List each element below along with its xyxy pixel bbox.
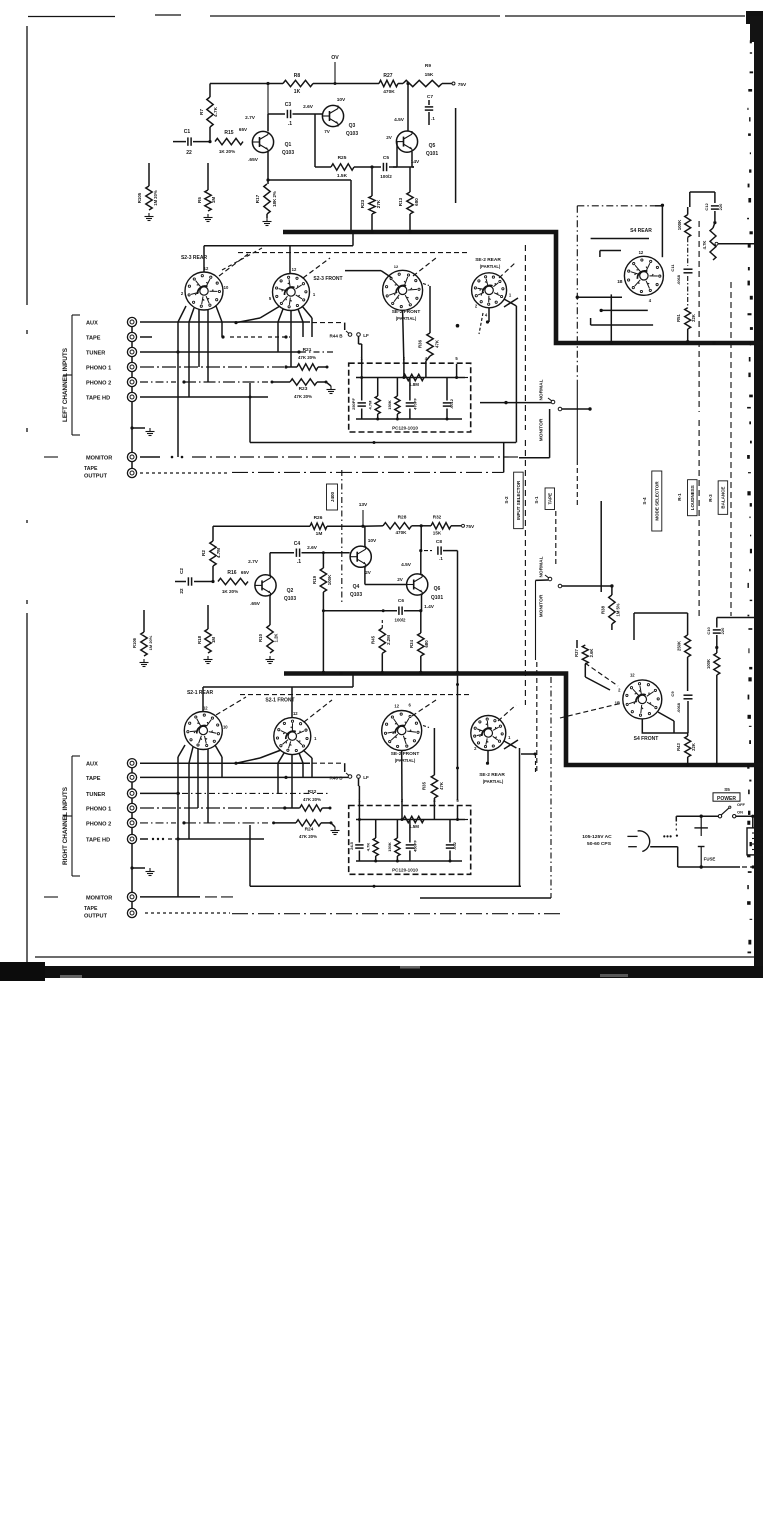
svg-text:R17: R17 <box>255 194 260 203</box>
resistor R36 47K <box>418 284 440 365</box>
svg-text:12: 12 <box>292 267 297 272</box>
wire monitor segment right <box>420 897 551 899</box>
resistor 1.5M pc right <box>403 816 424 829</box>
svg-text:Q6: Q6 <box>434 586 441 592</box>
transformer primary <box>747 828 763 855</box>
input row TAPE HD right <box>140 837 264 840</box>
svg-text:2.6K: 2.6K <box>589 649 594 658</box>
wire mid horizontal right ch <box>250 885 521 888</box>
linkage balance dashed <box>730 282 732 616</box>
wire S4R lower left <box>576 296 622 299</box>
svg-text:.1: .1 <box>439 556 443 561</box>
svg-text:SE-2 FRONT: SE-2 FRONT <box>392 309 421 315</box>
svg-text:TAPE HD: TAPE HD <box>86 838 110 844</box>
svg-text:22K: 22K <box>691 743 696 751</box>
input row MONITOR left <box>140 456 519 459</box>
svg-text:MONITOR: MONITOR <box>86 895 112 901</box>
linkage diag S2-1 FRONT <box>304 700 332 722</box>
wire Q4 emitter down <box>365 567 407 585</box>
svg-text:R51: R51 <box>676 313 681 321</box>
svg-text:R45: R45 <box>371 635 376 644</box>
wire tapehd vertical right <box>249 825 251 886</box>
capacitor 250PF pc right <box>349 820 364 862</box>
svg-text:1M: 1M <box>211 637 216 643</box>
rotary switch SE-2 REAR <box>472 257 512 317</box>
svg-text:2.7V: 2.7V <box>248 559 259 565</box>
input row TUNER right <box>140 792 330 794</box>
wire vertical 535 right ch <box>536 580 537 772</box>
wire jacks monitor link <box>131 462 133 469</box>
resistor R5 1M <box>197 163 216 211</box>
svg-text:LF: LF <box>363 333 369 338</box>
svg-text:4.7K: 4.7K <box>702 241 707 250</box>
wire tapehd vertical <box>249 383 251 443</box>
svg-text:R-1: R-1 <box>677 493 682 501</box>
capacitor C10 220 <box>706 618 754 650</box>
wire Q4 collector up <box>364 526 366 547</box>
resistor R25 <box>331 155 354 179</box>
svg-text:47K 20%: 47K 20% <box>299 834 317 839</box>
wire supply rail right ch <box>213 525 310 527</box>
jack PHONO 2 <box>86 377 137 386</box>
resistor R26 1M <box>310 515 363 537</box>
input row MONITOR right <box>140 896 236 898</box>
svg-text:C11: C11 <box>670 264 675 272</box>
svg-text:10: 10 <box>223 725 228 730</box>
svg-text:R38: R38 <box>601 605 606 614</box>
svg-text:47K: 47K <box>435 339 440 348</box>
svg-text:R26: R26 <box>314 515 323 521</box>
label box BALANCE <box>708 481 728 514</box>
wire to 75V <box>442 82 467 88</box>
resistor 1.8M pc left <box>403 374 424 387</box>
resistor R22 47K <box>300 789 332 811</box>
svg-text:R24: R24 <box>305 827 314 833</box>
svg-text:1K 20%: 1K 20% <box>222 589 238 594</box>
wire S4F bottom loop <box>642 719 688 733</box>
capacitor C2 <box>175 568 213 594</box>
svg-text:65V: 65V <box>239 127 248 132</box>
svg-text:1B: 1B <box>617 279 622 284</box>
svg-text:100K: 100K <box>327 574 332 585</box>
svg-text:680: 680 <box>424 640 429 648</box>
svg-text:TAPE HD: TAPE HD <box>86 396 110 402</box>
node 13V supply <box>359 502 368 528</box>
jack MONITOR right <box>86 892 137 901</box>
svg-text:1.5K: 1.5K <box>337 173 348 179</box>
svg-text:AUX: AUX <box>86 762 98 768</box>
wire power bottom <box>678 865 755 868</box>
svg-text:12: 12 <box>394 704 399 709</box>
svg-text:PC120-1010: PC120-1010 <box>392 426 418 431</box>
svg-text:Q101: Q101 <box>426 151 438 157</box>
ac plug <box>627 831 678 852</box>
wire spoke tuner long <box>176 350 179 457</box>
jack MONITOR <box>86 452 137 461</box>
capacitor C11 .0068 <box>670 264 693 285</box>
wire plug riser <box>675 816 677 833</box>
svg-text:R44 B: R44 B <box>329 334 343 339</box>
pc board PC120-1010 right <box>349 798 471 874</box>
switch NORMAL-MONITOR right <box>539 556 562 617</box>
wire monitor switch right <box>562 407 592 410</box>
linkage vertical S1 dash <box>551 511 556 898</box>
resistor R106 <box>132 610 153 656</box>
svg-text:2.2M: 2.2M <box>386 635 391 645</box>
svg-text:2V: 2V <box>397 577 404 582</box>
wire 100K top link <box>690 192 715 203</box>
wire S4F pin right <box>658 712 674 733</box>
capacitor C5 <box>380 155 414 179</box>
resistor R19 100K <box>312 551 332 674</box>
bus dots S4R <box>610 341 716 345</box>
resistor 4.7M pc left <box>368 378 381 420</box>
wire SE-2 REAR to right <box>456 298 518 443</box>
jack TAPE HD right <box>86 834 137 843</box>
svg-text:22: 22 <box>186 150 192 156</box>
svg-text:TUNER: TUNER <box>86 351 105 357</box>
svg-text:POWER: POWER <box>717 796 736 802</box>
wire 250K top link <box>634 613 688 640</box>
svg-text:10V: 10V <box>368 538 377 544</box>
wire Q6 emitter node <box>419 595 422 612</box>
pc board bottom wire left <box>356 418 462 421</box>
label box MODE SELECTOR <box>642 471 662 531</box>
svg-text:Q5: Q5 <box>429 143 436 149</box>
svg-text:Q103: Q103 <box>282 150 294 156</box>
svg-text:C1: C1 <box>184 129 191 135</box>
input row PHONO 2 right <box>140 821 296 824</box>
wire SE-2 REAR right link <box>504 740 537 822</box>
svg-text:65V: 65V <box>241 570 250 575</box>
svg-text:R25: R25 <box>338 155 347 161</box>
svg-text:R21: R21 <box>303 347 312 353</box>
svg-text:470PF: 470PF <box>413 398 418 410</box>
linkage J400 dashed <box>341 470 343 602</box>
switch S5 power <box>718 802 745 818</box>
svg-text:4.5V: 4.5V <box>401 562 412 568</box>
svg-text:MONITOR: MONITOR <box>539 594 545 617</box>
svg-text:12: 12 <box>203 706 208 711</box>
svg-text:10V: 10V <box>337 97 346 103</box>
wire R8 to OV <box>313 83 335 85</box>
pc board top wire right <box>356 806 470 821</box>
svg-text:R46 B: R46 B <box>329 776 343 781</box>
linkage diag SE-2 REAR <box>499 262 516 278</box>
wire Q1 emitter to bus <box>268 180 351 232</box>
wire Q1 emitter down <box>266 152 269 182</box>
jack TAPE HD <box>86 392 137 401</box>
rotary switch S2-1 FRONT <box>265 698 317 755</box>
svg-text:OUTPUT: OUTPUT <box>84 914 108 920</box>
capacitor C9 .0068 <box>670 675 693 733</box>
border frame top-right corner blob <box>746 11 763 24</box>
svg-text:R37: R37 <box>574 648 579 656</box>
svg-text:4.7M: 4.7M <box>368 400 373 410</box>
svg-text:C3: C3 <box>285 102 292 108</box>
jack AUX right <box>86 759 137 768</box>
svg-text:(PARTIAL): (PARTIAL) <box>483 779 504 784</box>
svg-text:R22: R22 <box>308 789 317 795</box>
svg-text:.65V: .65V <box>248 157 259 163</box>
svg-text:MONITOR: MONITOR <box>86 456 112 462</box>
jack TAPE OUTPUT <box>84 466 137 480</box>
svg-text:C5: C5 <box>383 155 389 161</box>
svg-text:NORMAL: NORMAL <box>539 556 545 577</box>
svg-text:S-4: S-4 <box>642 497 647 505</box>
svg-text:150K: 150K <box>387 400 392 410</box>
svg-text:R18: R18 <box>197 635 202 644</box>
wire rail to Q1 collector <box>266 82 269 131</box>
svg-text:S2-1 FRONT: S2-1 FRONT <box>265 698 294 704</box>
wire plug lower conductor <box>650 847 678 867</box>
wire spoke SE-2 REAR right down <box>486 751 489 765</box>
rotary switch SE-2 FRONT <box>383 270 423 321</box>
svg-text:Q103: Q103 <box>350 592 362 598</box>
svg-text:22: 22 <box>179 588 184 594</box>
svg-text:S2-1 REAR: S2-1 REAR <box>187 690 214 696</box>
resistor R35 47K <box>422 726 445 807</box>
ground below R105 <box>145 213 154 221</box>
svg-text:47K 20%: 47K 20% <box>298 355 316 360</box>
svg-text:2.6V: 2.6V <box>307 545 318 551</box>
bracket RIGHT CHANNEL INPUTS <box>44 756 80 897</box>
transistor Q3 <box>322 97 358 137</box>
wire vertical 601 <box>600 501 602 592</box>
capacitor C1 <box>173 129 210 156</box>
svg-text:R43: R43 <box>676 742 681 750</box>
bus shielded line right channel <box>284 674 763 766</box>
svg-text:C2: C2 <box>179 568 184 574</box>
svg-text:2V: 2V <box>386 135 393 140</box>
resistor 250K s4f <box>677 613 691 675</box>
svg-text:4.7M: 4.7M <box>216 548 221 558</box>
svg-text:.0012: .0012 <box>449 398 454 409</box>
rotary switch S4 FRONT <box>615 672 662 742</box>
svg-text:TAPE: TAPE <box>548 493 553 505</box>
ground below R5 <box>204 214 213 222</box>
resistor R9 15K <box>403 63 442 87</box>
input row TAPE OUTPUT left <box>140 471 504 474</box>
capacitor C6 <box>323 598 420 623</box>
wire S4R to bus <box>610 294 612 341</box>
capacitor C12 220 <box>704 203 723 225</box>
rotary switch S2-3 FRONT <box>269 267 343 311</box>
svg-text:Q4: Q4 <box>353 584 360 590</box>
svg-text:R10: R10 <box>258 633 263 642</box>
svg-text:PC120-1010: PC120-1010 <box>392 868 418 873</box>
pc board top wire left <box>356 364 470 379</box>
linkage chain 100K C11 R51 <box>687 237 689 266</box>
svg-text:OFF: OFF <box>737 802 746 807</box>
transistor Q1 <box>239 115 294 163</box>
svg-text:R28: R28 <box>398 515 407 521</box>
svg-text:PHONO 2: PHONO 2 <box>86 821 111 827</box>
svg-text:150K: 150K <box>387 842 392 852</box>
jack TUNER right <box>86 789 137 798</box>
svg-text:LF: LF <box>363 775 369 780</box>
resistor 100K s4f <box>706 648 720 767</box>
svg-text:R23: R23 <box>299 386 308 392</box>
svg-text:C12: C12 <box>704 203 709 211</box>
wire R27 junction to Q5 <box>407 84 409 132</box>
input row TAPE HD <box>140 396 268 399</box>
resistor R2 4.7M <box>201 526 221 581</box>
resistor R10 <box>258 596 279 653</box>
wire monitor switch right ch <box>536 580 614 588</box>
svg-text:MODE SELECTOR: MODE SELECTOR <box>655 481 660 521</box>
wire S4R left pins <box>591 239 649 258</box>
svg-text:R19: R19 <box>312 575 317 584</box>
node OV top supply <box>331 55 339 85</box>
rotary switch S4 REAR <box>617 228 663 303</box>
ground jack chain left <box>146 428 155 436</box>
svg-text:INPUT SELECTOR: INPUT SELECTOR <box>516 480 521 520</box>
wire R44 to PC board pin1 <box>359 336 362 364</box>
svg-text:1M 5%: 1M 5% <box>616 603 621 616</box>
svg-text:Q1: Q1 <box>285 142 292 148</box>
wire S4R pin12 drop <box>661 205 663 257</box>
svg-text:OUTPUT: OUTPUT <box>84 474 108 480</box>
border frame bottom line <box>35 956 755 958</box>
linkage loudness dashed <box>698 221 700 616</box>
wire spokes S2-1 REAR down <box>178 745 222 839</box>
resistor R45 2.2M <box>371 620 392 674</box>
svg-text:.1: .1 <box>431 116 435 121</box>
svg-text:.1: .1 <box>288 121 292 127</box>
linkage diag SE-2 FRONT <box>413 258 436 276</box>
svg-text:C8: C8 <box>436 539 442 545</box>
resistor R51 22K <box>676 308 696 344</box>
svg-text:R5: R5 <box>197 197 202 203</box>
input row TUNER <box>140 350 336 353</box>
wire collector Q6 up <box>419 526 422 574</box>
svg-text:680: 680 <box>414 198 419 206</box>
svg-text:R32: R32 <box>433 515 442 520</box>
wire mid horizontal <box>250 441 516 444</box>
resistor 100K s4r <box>677 192 691 237</box>
svg-text:220: 220 <box>718 203 723 210</box>
node R25-C5 <box>354 165 381 168</box>
resistor R105 <box>137 163 158 210</box>
ground jack chain right <box>146 868 155 876</box>
svg-text:27K: 27K <box>376 199 381 208</box>
svg-text:100/2: 100/2 <box>395 618 407 623</box>
resistor R13 680 <box>398 167 419 234</box>
svg-text:470K: 470K <box>396 530 408 535</box>
svg-text:1M: 1M <box>211 197 216 204</box>
ground below R10 <box>266 656 275 664</box>
label box INPUT SELECTOR <box>504 472 523 529</box>
svg-text:R2: R2 <box>201 550 206 556</box>
svg-text:Q2: Q2 <box>287 588 294 594</box>
wire power switch feed <box>676 815 754 828</box>
wire S4R bottom long <box>591 318 654 325</box>
wire C8 drop vertical <box>456 551 459 801</box>
pc board PC120-1010 left <box>349 356 471 432</box>
svg-text:PHONO 1: PHONO 1 <box>86 366 111 372</box>
svg-text:47K 20%: 47K 20% <box>294 394 312 399</box>
svg-text:R106: R106 <box>132 637 137 648</box>
resistor R7 4.7K <box>199 84 219 142</box>
wire S2-1 tops to bus <box>203 672 353 718</box>
bus shielded line left channel <box>283 232 763 343</box>
wire Q2 collector up <box>270 553 294 575</box>
svg-text:TAPE: TAPE <box>84 466 98 472</box>
svg-text:NORMAL: NORMAL <box>539 379 545 400</box>
svg-text:PHONO 2: PHONO 2 <box>86 381 111 387</box>
svg-text:4.5V: 4.5V <box>394 117 405 123</box>
svg-text:4.7K: 4.7K <box>213 106 219 117</box>
capacitor 250PF pc left <box>351 378 366 420</box>
svg-text:R36: R36 <box>418 339 423 348</box>
capacitor C8 <box>424 539 458 561</box>
svg-text:S2-3 FRONT: S2-3 FRONT <box>313 276 342 282</box>
switch R46 B right <box>329 763 369 780</box>
svg-text:PHONO 1: PHONO 1 <box>86 807 111 813</box>
capacitor .002 pc right <box>446 820 457 862</box>
bracket LEFT CHANNEL INPUTS <box>44 315 80 457</box>
resistor R23b 47K <box>290 379 328 399</box>
svg-text:105-125V AC: 105-125V AC <box>582 834 612 840</box>
svg-text:10: 10 <box>224 285 229 290</box>
svg-text:15K: 15K <box>425 72 434 78</box>
wire SE-2 FRONT pin2 down <box>403 311 404 365</box>
svg-text:R16: R16 <box>227 570 236 576</box>
jack PHONO 1 <box>86 362 137 371</box>
wire Q2 collector rail <box>269 526 271 531</box>
resistor R8 <box>283 73 313 95</box>
switch R44 B left <box>329 323 369 339</box>
svg-text:R15: R15 <box>224 130 233 136</box>
wire Q1 collector to C3 <box>268 114 285 131</box>
jack TAPE right <box>86 773 137 782</box>
svg-text:S5: S5 <box>724 787 730 792</box>
border frame right edge bar <box>750 16 763 970</box>
svg-text:.1: .1 <box>297 559 301 565</box>
svg-text:250K: 250K <box>677 641 682 651</box>
svg-text:2V: 2V <box>365 570 372 575</box>
svg-text:TAPE: TAPE <box>86 776 101 782</box>
jack TAPE OUTPUT right <box>84 906 137 920</box>
svg-text:R9: R9 <box>425 63 431 69</box>
wire spokes S2-3 FRONT down <box>234 306 312 367</box>
resistor 4.7M pc right <box>366 820 379 862</box>
wire spokes S2-1 FRONT down <box>234 750 312 808</box>
svg-text:(PARTIAL): (PARTIAL) <box>480 264 501 269</box>
wire S4R bottom feed <box>600 309 648 312</box>
svg-text:12: 12 <box>293 711 298 716</box>
wire jack ground chain <box>130 327 145 452</box>
svg-text:S4 FRONT: S4 FRONT <box>634 736 659 742</box>
jack TAPE <box>86 332 137 341</box>
switch NORMAL-MONITOR left <box>539 379 562 441</box>
linkage diag S2-3 REAR <box>219 248 262 276</box>
ground after R24 <box>331 823 340 835</box>
svg-text:Q3: Q3 <box>349 123 356 129</box>
svg-text:47K 20%: 47K 20% <box>303 797 321 802</box>
svg-text:R23: R23 <box>360 199 365 208</box>
svg-text:75V: 75V <box>466 524 475 530</box>
svg-text:R27: R27 <box>383 73 392 79</box>
svg-text:OV: OV <box>331 55 339 61</box>
wire Q5 emitter to node <box>412 152 414 167</box>
svg-text:R35: R35 <box>422 781 427 790</box>
svg-text:RIGHT CHANNEL INPUTS: RIGHT CHANNEL INPUTS <box>62 786 69 865</box>
input row PHONO 1 <box>140 365 297 368</box>
resistor R43 22K <box>676 733 696 767</box>
linkage S2 vertical dashed <box>524 245 526 705</box>
